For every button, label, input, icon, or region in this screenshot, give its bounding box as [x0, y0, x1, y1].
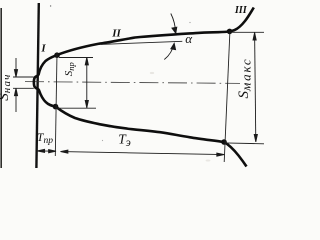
svg-text:III: III	[234, 5, 248, 16]
paper background	[0, 0, 264, 168]
vertical extension at T_pr	[55, 53, 57, 156]
svg-text:Sмакс: Sмакс	[236, 58, 253, 99]
S_pr extension top	[59, 57, 93, 59]
scan speck	[189, 22, 190, 23]
svg-text:Sнач: Sнач	[0, 73, 13, 100]
svg-text:Sпр: Sпр	[63, 62, 76, 76]
S_pr dimension line	[85, 58, 88, 108]
svg-text:I: I	[40, 43, 46, 55]
centerline (dash-dot)	[25, 82, 240, 84]
left page-edge line	[0, 8, 2, 168]
scan smudge	[150, 72, 154, 74]
scan smudge bottom	[206, 160, 211, 162]
node dot lower left	[53, 104, 59, 110]
S_nach extension top	[13, 76, 34, 78]
S_max extension bottom	[225, 142, 264, 145]
T_pr dimension	[37, 149, 56, 153]
vertical axis S	[36, 3, 38, 168]
scan speck	[50, 5, 51, 6]
svg-text:α: α	[185, 31, 193, 46]
svg-text:II: II	[111, 27, 121, 39]
S_nach extension bottom	[13, 87, 34, 89]
T_e dimension	[61, 150, 225, 156]
vertical extension at T_e right	[224, 32, 230, 163]
S_max dimension line	[253, 33, 257, 142]
S_pr extension bottom	[58, 107, 97, 109]
main curve	[34, 8, 254, 167]
S_max extension top	[231, 31, 264, 33]
node dot lower right	[221, 139, 227, 145]
node dot II/III	[227, 29, 233, 35]
node dot I/II	[54, 52, 60, 58]
S_nach dimension arrows	[14, 58, 17, 112]
alpha arc bottom	[164, 43, 175, 59]
scan speck	[102, 140, 103, 141]
alpha arc top	[171, 14, 177, 34]
alpha reference line	[101, 41, 182, 44]
